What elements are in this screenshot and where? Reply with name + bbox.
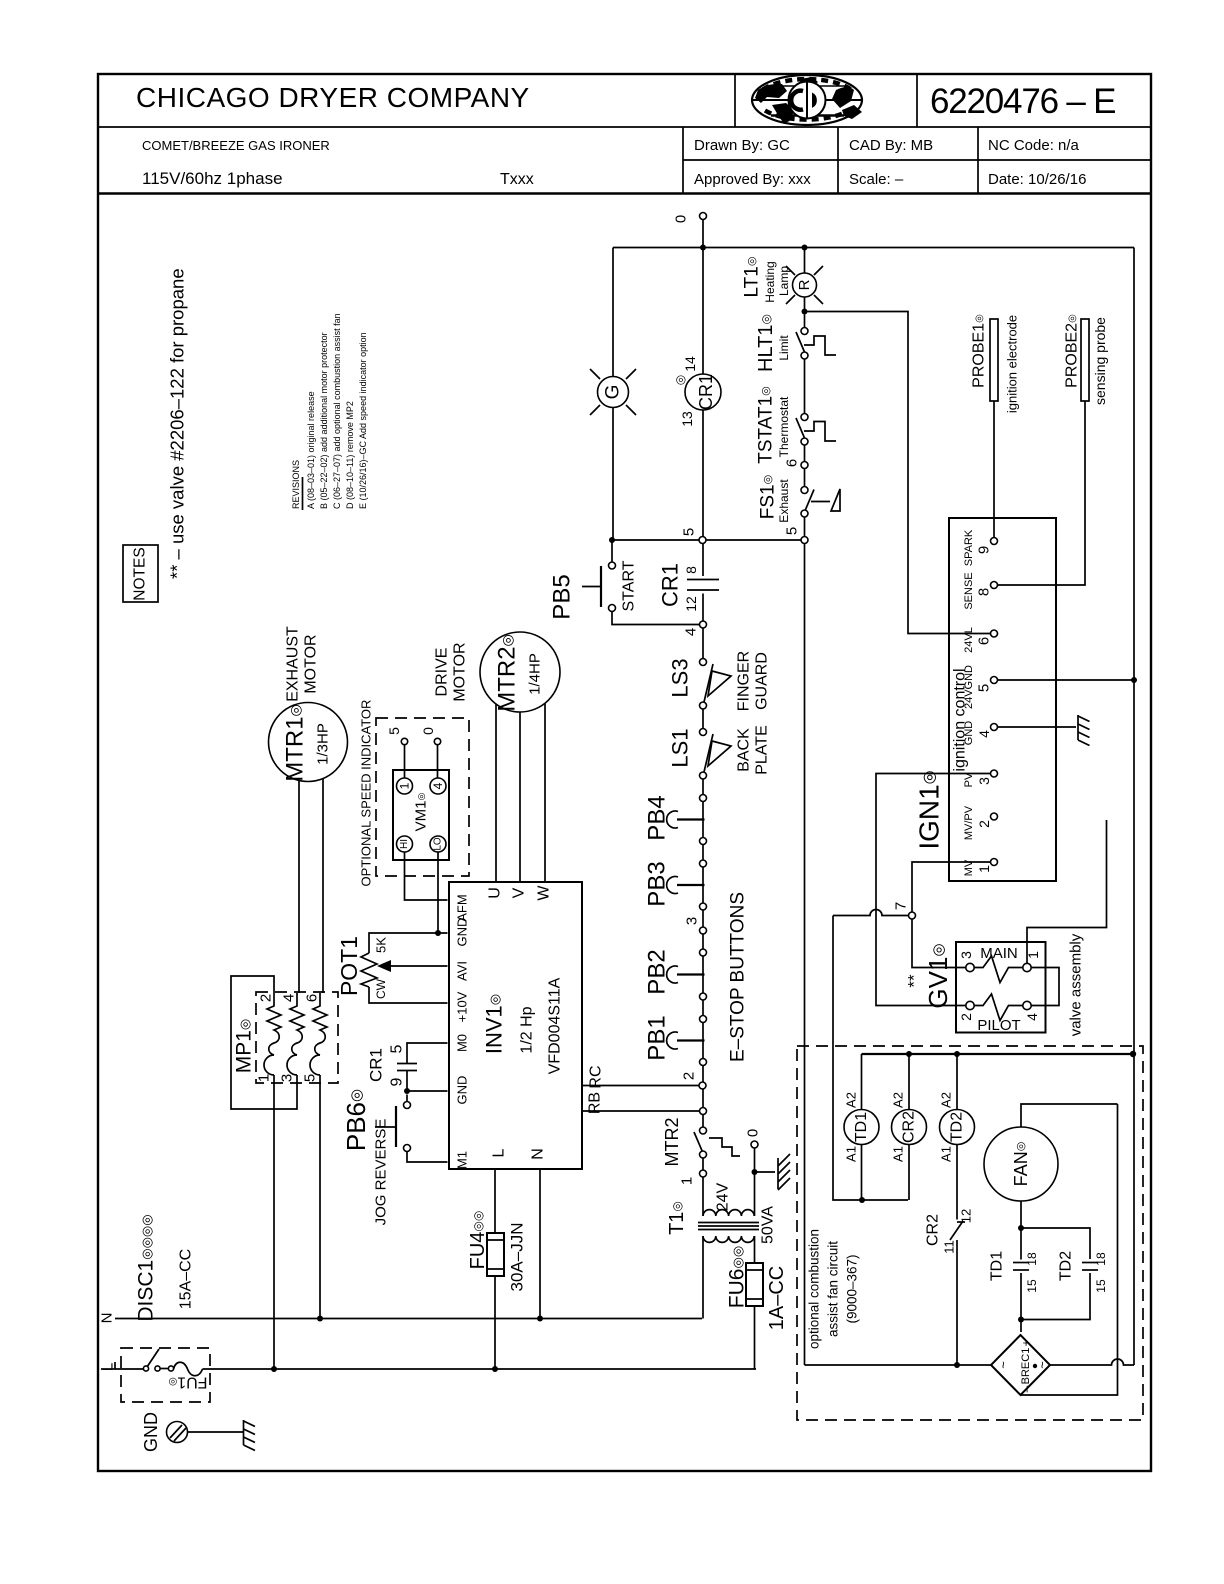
company logo globe bbox=[752, 75, 862, 125]
contact TD2 bbox=[1021, 1251, 1108, 1320]
svg-text:OPTIONAL SPEED INDICATOR: OPTIONAL SPEED INDICATOR bbox=[359, 700, 374, 887]
svg-text:6: 6 bbox=[976, 637, 993, 645]
chassis ground at GND bbox=[244, 1420, 256, 1451]
svg-text:VFD004S11A: VFD004S11A bbox=[547, 977, 564, 1074]
MP1 element 1 bbox=[264, 993, 281, 1075]
svg-text:18: 18 bbox=[1025, 1252, 1039, 1266]
MP1 element 2 bbox=[287, 993, 304, 1075]
svg-text:1A–CC: 1A–CC bbox=[766, 1266, 788, 1330]
svg-text:Approved By: xxx: Approved By: xxx bbox=[694, 171, 811, 188]
wire VM1 LO to GND bbox=[437, 852, 439, 933]
svg-text:6: 6 bbox=[784, 459, 801, 467]
node RB circle bbox=[700, 1108, 707, 1115]
disconnect DISC1 bbox=[100, 1348, 211, 1402]
node coil return junction bbox=[859, 1197, 865, 1203]
svg-text:A2: A2 bbox=[844, 1092, 859, 1108]
label finger guard bbox=[736, 651, 771, 711]
svg-text:A (08–03–01) original release: A (08–03–01) original release bbox=[306, 391, 316, 509]
svg-text:TD1: TD1 bbox=[989, 1251, 1006, 1281]
wire AC1 to BREC1 bbox=[805, 1364, 992, 1366]
svg-text:W: W bbox=[536, 885, 553, 901]
label drive motor bbox=[434, 642, 469, 701]
svg-text:15A–CC: 15A–CC bbox=[178, 1249, 195, 1309]
wire coil return bbox=[833, 916, 908, 1201]
svg-text:Drawn By: GC: Drawn By: GC bbox=[694, 137, 790, 154]
node 1 terminal circle bbox=[679, 1170, 707, 1185]
svg-text:CR1: CR1 bbox=[696, 374, 716, 410]
wire main rail top bbox=[702, 220, 704, 375]
svg-text:Scale: –: Scale: – bbox=[849, 171, 904, 188]
svg-text:◎: ◎ bbox=[673, 375, 687, 385]
svg-text:15: 15 bbox=[1094, 1279, 1108, 1293]
NOTES box bbox=[123, 545, 158, 602]
svg-text:CHICAGO DRYER COMPANY: CHICAGO DRYER COMPANY bbox=[136, 82, 530, 113]
svg-text:GND: GND bbox=[455, 1076, 470, 1105]
motor protector MP1 dashed box bbox=[256, 992, 338, 1083]
svg-text:U: U bbox=[487, 887, 504, 899]
svg-text:5: 5 bbox=[302, 1074, 319, 1082]
svg-text:6: 6 bbox=[304, 994, 321, 1002]
border frame bbox=[98, 74, 1151, 1471]
combustion fan dashed box bbox=[797, 1046, 1143, 1420]
node N-elem3 junction bbox=[317, 1316, 323, 1322]
ignition control IGN1 box bbox=[914, 518, 1057, 881]
inverter INV1 box bbox=[449, 882, 582, 1169]
svg-text:PROBE2◎: PROBE2◎ bbox=[1064, 314, 1081, 388]
svg-text:CR2: CR2 bbox=[901, 1111, 918, 1143]
svg-text:MAIN: MAIN bbox=[980, 945, 1018, 962]
wire node3 to PB2 bbox=[702, 934, 704, 949]
svg-text:30A–JJN: 30A–JJN bbox=[508, 1223, 527, 1292]
wire RB to MTR2 contact bbox=[702, 1115, 704, 1128]
fuse FU4 bbox=[467, 1169, 527, 1369]
svg-text:GND: GND bbox=[141, 1412, 161, 1452]
svg-text:assist fan circuit: assist fan circuit bbox=[826, 1241, 841, 1337]
svg-text:M0: M0 bbox=[455, 1034, 470, 1052]
thermostat TSTAT1 bbox=[756, 386, 837, 464]
wire BREC1 minus bbox=[1021, 1104, 1118, 1395]
svg-text:M1: M1 bbox=[455, 1151, 470, 1169]
wire right rail bbox=[1133, 248, 1135, 1366]
svg-text:LS3: LS3 bbox=[668, 658, 693, 697]
motor MTR2 bbox=[480, 632, 560, 712]
svg-text:Heating: Heating bbox=[763, 261, 777, 302]
wire LS1 to PB4 bbox=[702, 779, 704, 795]
svg-text:Thermostat: Thermostat bbox=[777, 396, 791, 457]
wire BREC1 AC2 to right rail with hop bbox=[1050, 1359, 1134, 1365]
svg-text:7: 7 bbox=[893, 902, 910, 910]
IGN1 terminal 1 MV bbox=[963, 859, 998, 877]
svg-text:14: 14 bbox=[682, 356, 698, 372]
probe PROBE2 bbox=[1064, 314, 1109, 405]
svg-text:(9000–367): (9000–367) bbox=[845, 1254, 860, 1323]
wire node2 to RB node bbox=[702, 1089, 704, 1108]
node rail TD2 junction bbox=[954, 1051, 960, 1057]
svg-text:GUARD: GUARD bbox=[754, 652, 771, 710]
svg-text:8: 8 bbox=[683, 566, 699, 574]
wire L bbox=[203, 1368, 757, 1370]
wire left rail down to fan circuit bbox=[804, 544, 806, 1366]
revisions title bbox=[291, 460, 303, 510]
contact CR1 at M0 bbox=[367, 1043, 448, 1091]
svg-text:13: 13 bbox=[679, 411, 695, 427]
svg-text:1: 1 bbox=[976, 865, 992, 873]
GV1 main coil bbox=[958, 951, 1041, 983]
node L-elem1 junction bbox=[271, 1366, 277, 1372]
svg-text:5: 5 bbox=[386, 727, 402, 735]
potentiometer POT1 bbox=[336, 933, 448, 1003]
svg-text:1: 1 bbox=[679, 1177, 696, 1185]
MP1 terminal labels bbox=[256, 994, 321, 1082]
svg-text:0: 0 bbox=[673, 215, 690, 223]
wire MTR2 V bbox=[519, 712, 521, 882]
svg-text:4: 4 bbox=[281, 994, 298, 1002]
wire 24VGND to right rail bbox=[998, 679, 1135, 681]
motor MTR1 bbox=[269, 703, 348, 782]
svg-text:TSTAT1◎: TSTAT1◎ bbox=[756, 386, 777, 464]
fan motor FAN bbox=[984, 1104, 1118, 1228]
pushbutton PB6 jog reverse bbox=[341, 1089, 448, 1225]
wire INV1 RB bbox=[582, 1110, 700, 1112]
bridge rectifier BREC1 bbox=[991, 1335, 1050, 1395]
node POT-VM1 junction bbox=[435, 930, 441, 936]
wire MV to node7 bbox=[912, 862, 991, 912]
svg-text:11: 11 bbox=[942, 1240, 957, 1254]
svg-text:2: 2 bbox=[976, 820, 992, 828]
limit switch LS3 bbox=[668, 628, 732, 709]
wire top rail horizontal bbox=[613, 247, 1134, 249]
svg-text:MOTOR: MOTOR bbox=[452, 642, 469, 701]
wire MTR2 W bbox=[544, 703, 546, 882]
svg-text:4: 4 bbox=[683, 628, 700, 636]
wire IGN1 GND bbox=[998, 726, 1077, 728]
wire PB1 to node2 bbox=[702, 1066, 704, 1083]
svg-text:N: N bbox=[99, 1313, 116, 1324]
svg-text:9: 9 bbox=[976, 546, 993, 554]
svg-text:GND: GND bbox=[455, 918, 470, 947]
svg-text:15: 15 bbox=[1025, 1279, 1039, 1293]
label optional combustion assist fan circuit bbox=[807, 1229, 860, 1349]
svg-text:REVISIONS: REVISIONS bbox=[291, 460, 301, 509]
svg-text:0: 0 bbox=[420, 727, 436, 735]
svg-text:START: START bbox=[621, 560, 638, 611]
fuse FU6 bbox=[726, 1246, 789, 1369]
svg-text:24V: 24V bbox=[715, 1182, 732, 1211]
node 5 right terminal circle bbox=[784, 527, 809, 544]
IGN1 terminal 9 spark bbox=[963, 529, 998, 566]
svg-text:PLATE: PLATE bbox=[754, 725, 771, 775]
MP1 element 3 bbox=[310, 993, 327, 1075]
node rail junction bbox=[700, 245, 706, 251]
limit switch LS1 bbox=[668, 728, 732, 779]
wire to 24VL bbox=[805, 312, 991, 634]
node 4 terminal circle bbox=[683, 621, 707, 636]
svg-text:BACK: BACK bbox=[736, 728, 753, 772]
wire INV1 N to N bbox=[539, 1169, 541, 1319]
svg-text:CR1: CR1 bbox=[658, 563, 683, 607]
svg-text:9: 9 bbox=[389, 1077, 406, 1086]
relay coil CR1 bbox=[673, 356, 721, 427]
wire PV to pilot bbox=[876, 774, 991, 1006]
svg-text:Exhaust: Exhaust bbox=[777, 479, 791, 523]
meter VM1 bbox=[393, 770, 449, 860]
node TD junction bbox=[1018, 1317, 1024, 1323]
svg-text:4: 4 bbox=[431, 782, 445, 789]
svg-text:6220476 – E: 6220476 – E bbox=[930, 82, 1115, 121]
svg-text:Txxx: Txxx bbox=[500, 171, 534, 188]
wire fan to TD2 contact branch bbox=[1021, 1228, 1090, 1259]
svg-text:0: 0 bbox=[745, 1129, 762, 1137]
label LT1 heating lamp bbox=[742, 257, 792, 303]
svg-text:TD2: TD2 bbox=[1058, 1251, 1075, 1281]
svg-text:JOG REVERSE: JOG REVERSE bbox=[373, 1119, 390, 1226]
gas valve GV1 bbox=[905, 942, 1046, 1034]
svg-text:N: N bbox=[530, 1148, 547, 1160]
svg-text:POT1: POT1 bbox=[336, 936, 362, 996]
svg-text:18: 18 bbox=[1094, 1252, 1108, 1266]
contact TD1 bbox=[989, 1228, 1040, 1332]
svg-text:**: ** bbox=[905, 974, 924, 988]
INV1 terminal labels left bbox=[455, 894, 547, 1169]
probe PROBE1 bbox=[971, 314, 1020, 413]
svg-text:MOTOR: MOTOR bbox=[303, 634, 320, 693]
label back plate bbox=[736, 725, 771, 775]
wire MP1 elem1 bottom to L bbox=[273, 1075, 275, 1369]
wire INV1 RC bbox=[582, 1085, 699, 1087]
svg-text:4: 4 bbox=[1024, 1013, 1040, 1021]
ground electrode GND bbox=[141, 1412, 243, 1452]
svg-text:COMET/BREEZE GAS IRONER: COMET/BREEZE GAS IRONER bbox=[142, 138, 330, 153]
svg-text:–: – bbox=[1019, 1385, 1033, 1392]
wire N bbox=[99, 1313, 703, 1324]
IGN1 terminal 4 GND bbox=[963, 721, 998, 746]
wire GV1 jumper 1-4 bbox=[1031, 968, 1059, 1006]
svg-text:NOTES: NOTES bbox=[132, 547, 149, 600]
svg-text:24VL: 24VL bbox=[963, 627, 975, 653]
svg-text:3: 3 bbox=[684, 917, 701, 925]
pushbutton PB5 start bbox=[549, 540, 700, 625]
contact CR1 seal-in bbox=[658, 544, 720, 622]
pushbutton PB1 bbox=[644, 1015, 707, 1065]
svg-text:SENSE: SENSE bbox=[963, 572, 975, 609]
timer coil TD1 bbox=[844, 1054, 880, 1200]
wire sense to probe2 bbox=[998, 401, 1086, 585]
svg-text:4: 4 bbox=[976, 730, 992, 738]
svg-text:E (10/26/16)–GC Add speed indi: E (10/26/16)–GC Add speed indicator opti… bbox=[358, 332, 368, 509]
svg-text:2: 2 bbox=[681, 1072, 698, 1080]
wire node7 to main valve bbox=[912, 919, 966, 968]
wire MP1 loop elem1 top to elem2 bottom bbox=[231, 976, 297, 1109]
node 6 terminal circle bbox=[784, 459, 809, 469]
svg-text:V: V bbox=[511, 887, 528, 898]
chassis ground at T1 bbox=[778, 1154, 790, 1190]
pushbutton PB3 bbox=[644, 860, 707, 910]
svg-text:L: L bbox=[100, 1363, 117, 1371]
VM1 terminal 0 bbox=[420, 727, 441, 778]
wire GV1 terminal1 to MV/PV bbox=[1027, 820, 1107, 963]
fuse FU1 bbox=[168, 1362, 207, 1390]
node CR1-PB6 junction bbox=[404, 1088, 410, 1094]
node N-INV junction bbox=[537, 1316, 543, 1322]
svg-text:1/3HP: 1/3HP bbox=[315, 723, 332, 765]
svg-text:PB5: PB5 bbox=[549, 574, 576, 619]
node 24VGND junction bbox=[1131, 677, 1137, 683]
svg-text:AVI: AVI bbox=[455, 961, 470, 981]
IGN1 terminal 6 24VL bbox=[963, 627, 998, 653]
svg-text:TD1: TD1 bbox=[853, 1112, 870, 1142]
svg-text:R: R bbox=[796, 279, 813, 290]
svg-text:115V/60hz 1phase: 115V/60hz 1phase bbox=[142, 169, 283, 188]
svg-text:TD2: TD2 bbox=[949, 1112, 966, 1142]
node L-FU4 junction bbox=[492, 1366, 498, 1372]
flow switch FS1 bbox=[758, 469, 841, 537]
wire VM1 HI to AFM bbox=[405, 852, 448, 900]
contact CR2 NC bbox=[925, 1209, 974, 1365]
svg-text:G: G bbox=[603, 385, 624, 400]
svg-text:DRIVE: DRIVE bbox=[434, 648, 451, 697]
svg-text:5: 5 bbox=[784, 527, 801, 535]
speed indicator dashed box bbox=[376, 718, 469, 876]
svg-text:optional combustion: optional combustion bbox=[807, 1229, 822, 1349]
wire node5 to horizontal bbox=[706, 539, 801, 541]
IGN1 terminal 8 sense bbox=[963, 572, 998, 609]
wire rail CR1 to node5 bbox=[702, 410, 704, 537]
IGN1 terminal 5 24VGND bbox=[963, 665, 998, 709]
timer coil TD2 bbox=[939, 1054, 975, 1220]
svg-text:~: ~ bbox=[996, 1361, 1011, 1369]
svg-text:A1: A1 bbox=[939, 1146, 954, 1162]
node 7 terminal circle bbox=[893, 902, 916, 919]
svg-text:HI: HI bbox=[399, 839, 410, 849]
wire node5 horizontal bbox=[612, 539, 699, 541]
svg-text:Date: 10/26/16: Date: 10/26/16 bbox=[988, 171, 1086, 188]
wire spark to probe1 bbox=[993, 401, 995, 538]
limit switch HLT1 bbox=[755, 314, 836, 413]
svg-text:2: 2 bbox=[958, 1013, 974, 1021]
svg-text:MTR2: MTR2 bbox=[662, 1118, 682, 1167]
wire to chassis ground bbox=[755, 1171, 776, 1173]
svg-text:C (06–27–07) add optional com: C (06–27–07) add optional combustion ass… bbox=[332, 313, 342, 509]
relay coil CR2 bbox=[891, 1054, 927, 1200]
node AC1 CR2 junction bbox=[954, 1362, 960, 1368]
svg-text:sensing probe: sensing probe bbox=[1092, 317, 1108, 405]
svg-text:24VGND: 24VGND bbox=[963, 665, 975, 709]
wire PB4 to PB3 bbox=[702, 845, 704, 861]
svg-text:NC Code: n/a: NC Code: n/a bbox=[988, 137, 1080, 154]
wire MP1 elem3 bottom to N bbox=[319, 1075, 321, 1319]
node rail CR2 junction bbox=[906, 1051, 912, 1057]
svg-text:ignition electrode: ignition electrode bbox=[1005, 315, 1020, 413]
svg-text:Lamp: Lamp bbox=[777, 266, 791, 296]
svg-text:5: 5 bbox=[976, 684, 993, 692]
node 3 terminal circle bbox=[684, 917, 707, 934]
svg-text:E–STOP BUTTONS: E–STOP BUTTONS bbox=[728, 892, 749, 1062]
wire node1 to T1 bbox=[702, 1177, 704, 1216]
svg-text:5: 5 bbox=[389, 1044, 406, 1053]
svg-text:SPARK: SPARK bbox=[963, 529, 975, 566]
svg-text:CR1: CR1 bbox=[367, 1048, 386, 1082]
node5 left junction bbox=[609, 537, 615, 543]
svg-text:50VA: 50VA bbox=[760, 1206, 777, 1244]
wire node7 left with hop bbox=[833, 910, 909, 916]
svg-text:5: 5 bbox=[681, 528, 698, 536]
svg-text:3: 3 bbox=[958, 951, 974, 959]
svg-text:L: L bbox=[491, 1148, 508, 1157]
wire MTR2 U bbox=[495, 704, 497, 882]
svg-text:CR2: CR2 bbox=[925, 1214, 942, 1246]
wire MTR1 lead A bbox=[298, 781, 300, 993]
IGN1 terminal 3 PV bbox=[963, 770, 998, 787]
svg-text:A2: A2 bbox=[939, 1092, 954, 1108]
node 5 terminal circle bbox=[681, 528, 707, 544]
svg-text:LO: LO bbox=[433, 837, 444, 851]
svg-text:1/2 Hp: 1/2 Hp bbox=[519, 1006, 536, 1053]
GV1 pilot coil bbox=[958, 994, 1040, 1021]
svg-text:RB: RB bbox=[587, 1092, 604, 1114]
svg-text:3: 3 bbox=[279, 1074, 296, 1082]
svg-text:BREC1: BREC1 bbox=[1020, 1348, 1032, 1385]
svg-text:A1: A1 bbox=[891, 1146, 906, 1162]
wire PB3 to node3 bbox=[702, 910, 704, 927]
node rail right junction bbox=[1130, 1051, 1136, 1057]
svg-text:+10V: +10V bbox=[455, 991, 470, 1022]
wire LS3 to LS1 bbox=[702, 709, 704, 729]
node LT1 bottom junction bbox=[802, 309, 808, 315]
svg-text:EXHAUST: EXHAUST bbox=[285, 626, 302, 702]
svg-text:1: 1 bbox=[398, 782, 412, 789]
wire fan circuit supply rail bbox=[862, 1053, 1134, 1055]
wire PB2 to PB1 bbox=[702, 1000, 704, 1016]
svg-text:B (05–22–02) add additional mo: B (05–22–02) add additional motor protec… bbox=[319, 332, 329, 509]
svg-text:8: 8 bbox=[976, 588, 993, 596]
node fan bottom junction bbox=[1018, 1225, 1024, 1231]
svg-text:valve assembly: valve assembly bbox=[1068, 933, 1085, 1036]
svg-text:A2: A2 bbox=[891, 1092, 906, 1108]
svg-text:+: + bbox=[1019, 1339, 1033, 1346]
svg-text:LS1: LS1 bbox=[668, 728, 693, 767]
svg-text:FINGER: FINGER bbox=[736, 651, 753, 711]
svg-text:GND: GND bbox=[963, 721, 975, 746]
svg-text:1: 1 bbox=[256, 1074, 273, 1082]
label exhaust motor bbox=[285, 626, 320, 702]
svg-text:PROBE1◎: PROBE1◎ bbox=[971, 314, 988, 388]
title block lines bbox=[98, 74, 1151, 194]
IGN1 terminal 2 MV/PV bbox=[963, 805, 998, 840]
lamp LT1 bbox=[786, 248, 823, 312]
chassis ground at IGN1 bbox=[1078, 715, 1090, 746]
node LT1 junction bbox=[802, 245, 808, 251]
transformer T1 bbox=[666, 1148, 777, 1319]
svg-text:CW: CW bbox=[374, 978, 388, 999]
contact MTR2 aux bbox=[662, 1118, 740, 1167]
svg-text:D (08–10–11) remove MP2: D (08–10–11) remove MP2 bbox=[345, 401, 355, 509]
svg-text:1/4HP: 1/4HP bbox=[527, 653, 544, 695]
wire MTR2 contact to node1 bbox=[702, 1158, 704, 1170]
wire MTR1 lead B bbox=[322, 779, 324, 993]
svg-text:MV/PV: MV/PV bbox=[963, 805, 975, 840]
node T1 ground junction bbox=[752, 1169, 758, 1175]
pushbutton PB4 bbox=[644, 795, 707, 845]
svg-text:3: 3 bbox=[976, 777, 992, 785]
pushbutton PB2 bbox=[644, 949, 707, 1000]
VM1 terminal 5 bbox=[386, 727, 408, 778]
svg-text:12: 12 bbox=[683, 596, 699, 612]
INV1 terminal labels top bbox=[487, 885, 553, 901]
svg-text:RC: RC bbox=[588, 1065, 605, 1088]
node 2 terminal circle bbox=[681, 1072, 707, 1089]
svg-text:12: 12 bbox=[959, 1209, 974, 1223]
wire to INV1 GND2 bbox=[407, 1090, 448, 1092]
